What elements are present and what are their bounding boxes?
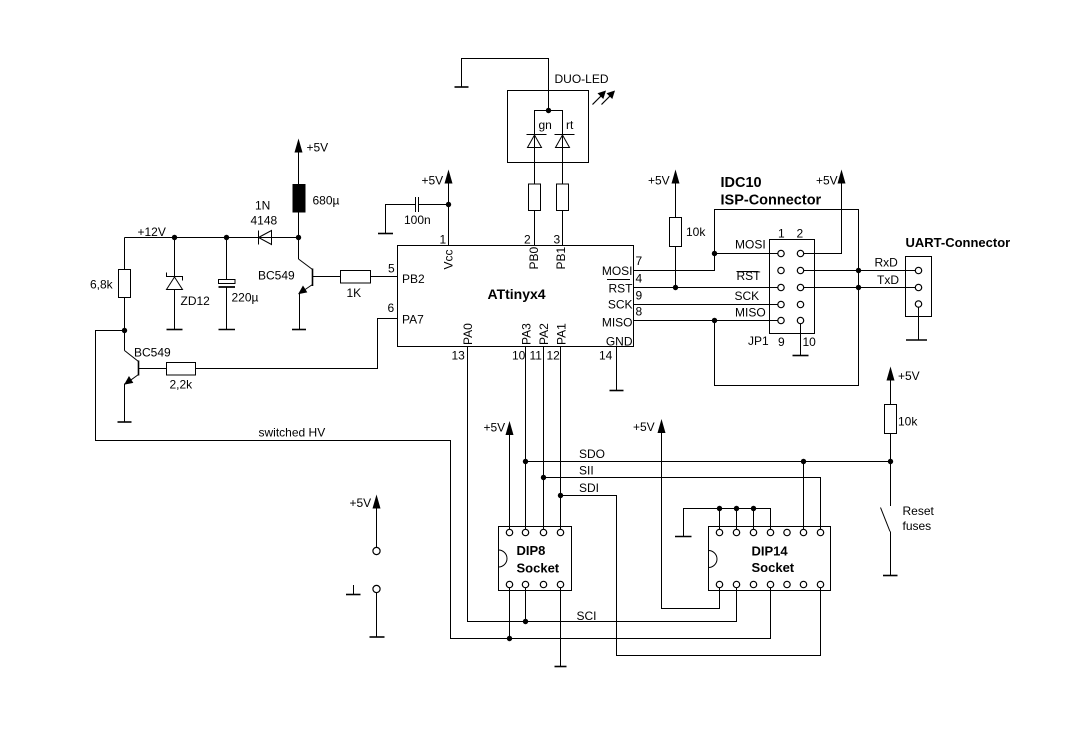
svg-text:680µ: 680µ xyxy=(313,194,340,208)
svg-text:+5V: +5V xyxy=(898,369,920,383)
svg-text:DUO-LED: DUO-LED xyxy=(555,72,609,86)
svg-text:10k: 10k xyxy=(686,225,706,239)
node 10k / RST xyxy=(673,285,678,290)
svg-text:PB1: PB1 xyxy=(554,246,568,269)
svg-text:PB2: PB2 xyxy=(402,272,425,286)
svg-text:2: 2 xyxy=(797,227,804,241)
svg-text:Reset: Reset xyxy=(903,504,935,518)
wire PA3 column (pin 10 to DIP8 pin 2 top) xyxy=(525,347,527,530)
svg-text:+12V: +12V xyxy=(138,225,166,239)
wire SDO row xyxy=(526,461,891,463)
svg-text:JP1: JP1 xyxy=(748,334,769,348)
svg-text:RST: RST xyxy=(609,282,634,296)
node SCI / DIP8 pin 2 bottom xyxy=(523,619,528,624)
svg-text:UART-Connector: UART-Connector xyxy=(906,235,1011,250)
ground under 100n xyxy=(378,233,393,235)
wire pin 9 SCK row xyxy=(634,304,779,306)
wire PA0 column (pin 13 to SCI row) xyxy=(468,347,737,622)
JP1 pin circles right column xyxy=(797,250,803,323)
ground terminal under switch xyxy=(883,575,898,577)
svg-text:100n: 100n xyxy=(404,213,431,227)
svg-text:220µ: 220µ xyxy=(232,291,259,305)
wire +12V to 6,8k xyxy=(124,238,126,270)
connector JP1 box xyxy=(770,240,815,334)
node bus pin 3 xyxy=(751,506,756,511)
svg-text:MOSI: MOSI xyxy=(735,238,766,252)
svg-text:6: 6 xyxy=(388,301,395,315)
svg-text:10k: 10k xyxy=(898,415,918,429)
node LED common cathode xyxy=(546,108,551,113)
svg-text:+5V: +5V xyxy=(307,141,329,155)
svg-text:5: 5 xyxy=(388,262,395,276)
wire TxD row xyxy=(804,287,916,289)
svg-text:Socket: Socket xyxy=(517,561,560,576)
wire DIP8 pin2 bottom to SCI row xyxy=(525,588,527,622)
wire pin 7 MOSI run xyxy=(634,210,859,386)
svg-text:BC549: BC549 xyxy=(134,346,171,360)
+5V supply arrow (Vcc) xyxy=(422,170,453,205)
node SDO tap xyxy=(523,459,528,464)
node SDO / DIP14 pin 6 xyxy=(801,459,806,464)
svg-text:PA1: PA1 xyxy=(555,323,569,345)
wire Q2 base to 2,2k xyxy=(139,368,167,370)
svg-text:PA7: PA7 xyxy=(402,313,424,327)
svg-text:4: 4 xyxy=(636,272,643,286)
svg-text:ISP-Connector: ISP-Connector xyxy=(721,193,822,209)
node bus pin 1 xyxy=(717,506,722,511)
ground under DIP8 pin 4 xyxy=(555,666,567,668)
wire DIP8 pin4 bottom to ground xyxy=(560,588,562,667)
wire +12V rail xyxy=(125,237,299,239)
resistor for gn LED xyxy=(529,184,541,211)
svg-text:1: 1 xyxy=(778,227,785,241)
ground under 220µ xyxy=(219,329,236,331)
node 6,8k / Q2 collector xyxy=(122,328,127,333)
svg-text:rt: rt xyxy=(566,118,574,132)
small ground marker xyxy=(346,585,361,595)
node TxD junction xyxy=(856,285,861,290)
svg-text:9: 9 xyxy=(636,289,643,303)
svg-text:13: 13 xyxy=(452,349,466,363)
svg-text:6,8k: 6,8k xyxy=(90,278,114,292)
ground under UART xyxy=(906,339,927,341)
svg-text:12: 12 xyxy=(547,349,561,363)
svg-text:RxD: RxD xyxy=(875,256,899,270)
node MOSI junction xyxy=(712,251,717,256)
IC socket DIP14 box xyxy=(709,527,831,591)
svg-text:1: 1 xyxy=(440,233,447,247)
svg-text:ZD12: ZD12 xyxy=(181,294,211,308)
ground under pad xyxy=(370,636,385,638)
ground under Q2 emitter xyxy=(118,421,132,423)
DIP8 notch xyxy=(499,550,508,567)
+5V supply arrow (reset pull-up) xyxy=(887,367,920,405)
node RxD junction xyxy=(856,268,861,273)
+5V supply arrow (top left) xyxy=(295,139,329,185)
svg-text:TxD: TxD xyxy=(877,273,899,287)
svg-text:switched HV: switched HV xyxy=(259,426,326,440)
svg-text:+5V: +5V xyxy=(484,421,506,435)
node switched HV / DIP8 pin 1 bottom xyxy=(507,636,512,641)
capacitor 220µ xyxy=(219,238,236,330)
svg-text:ATtinyx4: ATtinyx4 xyxy=(488,286,546,302)
svg-text:DIP14: DIP14 xyxy=(752,544,789,559)
+5V supply arrow (DIP8) xyxy=(484,421,514,530)
wire node to far-left drop xyxy=(96,331,771,639)
resistor 1K xyxy=(341,271,371,284)
ground symbol top-left of DUO-LED xyxy=(455,86,469,88)
node Vcc / 100n xyxy=(446,202,451,207)
svg-text:SII: SII xyxy=(579,464,594,478)
svg-text:+5V: +5V xyxy=(648,174,670,188)
svg-text:SCK: SCK xyxy=(735,289,760,303)
svg-text:SCK: SCK xyxy=(608,298,633,312)
+5V supply arrow (pad) xyxy=(350,495,381,548)
DUO-LED box xyxy=(508,91,589,163)
svg-text:SCI: SCI xyxy=(577,609,597,623)
wire DIP8 pin1 bottom to HV row xyxy=(509,588,511,639)
ground left of DIP14 xyxy=(675,536,692,538)
svg-text:+5V: +5V xyxy=(350,496,372,510)
wire SII row xyxy=(544,478,821,530)
LED rt (red) xyxy=(555,135,575,185)
ground under Q1 emitter xyxy=(292,329,306,331)
transistor Q2 BC549 (HV switch) xyxy=(125,331,139,422)
svg-text:+5V: +5V xyxy=(816,174,838,188)
ground under ZD12 xyxy=(167,329,183,331)
node MISO junction xyxy=(712,318,717,323)
svg-text:MOSI: MOSI xyxy=(602,264,633,278)
node +12V / 220µ xyxy=(224,235,229,240)
node SDO / reset switch xyxy=(888,459,893,464)
svg-text:1N: 1N xyxy=(255,199,270,213)
transistor Q1 BC549 (pass transistor) xyxy=(299,238,313,330)
svg-text:BC549: BC549 xyxy=(258,269,295,283)
DIP14 top pin circles xyxy=(716,529,823,535)
resistor 6,8k xyxy=(119,270,131,298)
+5V supply arrow (DIP14) xyxy=(633,419,720,609)
IC socket DIP8 box xyxy=(499,527,572,591)
svg-text:3: 3 xyxy=(554,233,561,247)
+5V supply arrow (10k pull-up) xyxy=(648,170,680,218)
svg-text:MISO: MISO xyxy=(735,306,766,320)
svg-text:MISO: MISO xyxy=(602,316,633,330)
resistor 2,2k xyxy=(167,363,196,376)
svg-text:GND: GND xyxy=(606,335,633,349)
resistor for rt LED xyxy=(557,184,569,211)
svg-text:11: 11 xyxy=(530,349,543,363)
wire PA2 column (pin 11 to DIP8 pin 3 top) xyxy=(543,347,545,530)
connector UART box xyxy=(906,257,932,317)
wire RxD row xyxy=(804,270,916,272)
svg-text:gn: gn xyxy=(539,118,552,132)
node SDI tap xyxy=(558,493,563,498)
ground under JP1 pin 10 xyxy=(793,355,809,357)
svg-text:8: 8 xyxy=(636,305,643,319)
zener diode ZD12 xyxy=(167,238,183,330)
node +12V / ZD12 xyxy=(172,235,177,240)
svg-text:PA0: PA0 xyxy=(461,323,475,345)
svg-text:4148: 4148 xyxy=(251,214,278,228)
wire 1K to pin 5 PB2 xyxy=(371,276,398,278)
wire UART ground stub xyxy=(918,307,920,340)
LED emission arrows xyxy=(593,91,616,105)
svg-text:14: 14 xyxy=(599,349,613,363)
wire PA1 column (pin 12 to DIP8 pin 4 top) xyxy=(560,347,562,530)
node SII tap xyxy=(541,475,546,480)
pad circle +5V xyxy=(373,547,380,554)
svg-text:2,2k: 2,2k xyxy=(170,378,194,392)
+5V supply arrow (JP1 pin 2) xyxy=(804,170,846,254)
op-amp/IC body ATtinyx4 xyxy=(398,246,634,347)
wire 6,8k to node xyxy=(124,298,126,331)
wire node to Vcc pin 1 xyxy=(448,205,450,246)
wire pad to ground xyxy=(376,593,378,637)
inductor/fuse 680µ (solid body) xyxy=(293,184,306,213)
wire pin 14 GND stub xyxy=(616,347,618,391)
wire 10k to RST node xyxy=(675,247,677,288)
DIP14 bottom pin circles xyxy=(716,581,823,587)
wire DIP14 ground bus (pins 1-4 top) xyxy=(684,509,771,537)
node +12V / diode / collector xyxy=(296,235,301,240)
wire JP1 pin 10 to ground xyxy=(800,324,802,356)
svg-text:PA3: PA3 xyxy=(520,323,534,345)
wire 10k to SDO node xyxy=(890,434,892,462)
wire 2,2k to pin 6 PA7 xyxy=(196,319,398,369)
UART pin circles xyxy=(915,267,921,307)
JP1 pin circles left column xyxy=(778,250,784,323)
capacitor 100n xyxy=(386,197,449,234)
LED gn (green) xyxy=(527,135,547,185)
pad circle ground xyxy=(373,585,380,592)
wire SDI row xyxy=(561,496,821,656)
ground under pin 14 xyxy=(610,390,624,392)
DIP8 top pin circles xyxy=(506,529,563,535)
wire DIP14 pin 6 top to SDO xyxy=(803,462,805,530)
svg-text:DIP8: DIP8 xyxy=(517,543,546,558)
DIP14 notch xyxy=(709,551,718,568)
svg-text:9: 9 xyxy=(778,335,785,349)
svg-text:+5V: +5V xyxy=(633,420,655,434)
svg-text:IDC10: IDC10 xyxy=(721,175,762,191)
resistor 10k (RST pull-up) xyxy=(670,218,682,247)
wire MOSI row to JP1 pin 1 xyxy=(715,253,779,255)
DIP8 bottom pin circles xyxy=(506,581,563,587)
resistor 10k (reset) xyxy=(885,405,897,434)
wire 680µ to +12V node xyxy=(298,213,300,238)
diode 1N4148 xyxy=(259,231,272,245)
svg-text:PB0: PB0 xyxy=(527,246,541,269)
switch Reset fuses xyxy=(881,462,891,576)
svg-text:fuses: fuses xyxy=(903,519,932,533)
wire LED cathode bus xyxy=(535,111,563,135)
svg-text:2: 2 xyxy=(524,233,531,247)
svg-text:PA2: PA2 xyxy=(537,323,551,345)
svg-text:Vcc: Vcc xyxy=(442,249,456,269)
wire Q1 base to 1K xyxy=(313,276,341,278)
wire ground run to DUO-LED common node xyxy=(462,59,549,111)
svg-text:SDI: SDI xyxy=(579,481,599,495)
node bus pin 2 xyxy=(734,506,739,511)
svg-text:Socket: Socket xyxy=(752,560,795,575)
svg-text:+5V: +5V xyxy=(422,174,444,188)
svg-text:SDO: SDO xyxy=(579,447,605,461)
svg-text:10: 10 xyxy=(512,349,526,363)
wire rt LED resistor to pin 3 xyxy=(562,211,564,246)
wire pin 4 RST row xyxy=(634,287,779,289)
svg-text:1K: 1K xyxy=(347,286,362,300)
wire pin 8 MISO row xyxy=(634,320,779,322)
wire gn LED resistor to pin 2 xyxy=(534,211,536,246)
svg-text:7: 7 xyxy=(636,254,643,268)
svg-text:10: 10 xyxy=(803,335,817,349)
